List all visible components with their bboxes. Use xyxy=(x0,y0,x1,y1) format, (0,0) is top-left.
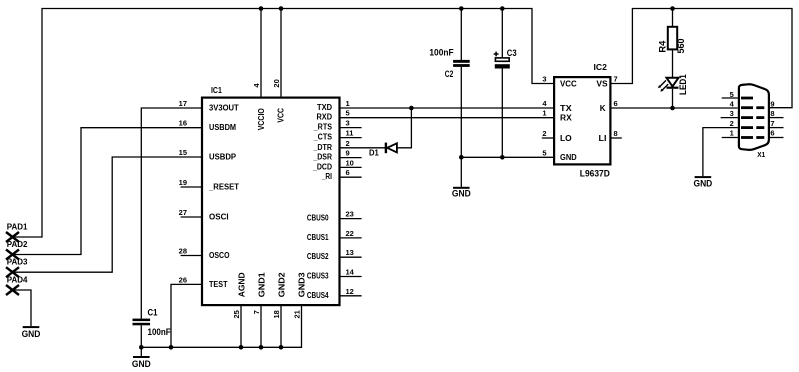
svg-text:16: 16 xyxy=(179,119,187,128)
pin stub IC1 OSCI 27 xyxy=(181,216,202,218)
svg-text:5: 5 xyxy=(542,148,546,157)
pad PAD2 xyxy=(6,240,28,260)
IC1 pin numbers left xyxy=(179,99,187,284)
IC2 L9637D box xyxy=(554,77,610,164)
svg-text:VCC: VCC xyxy=(276,108,285,123)
pad PAD1 xyxy=(6,222,28,242)
svg-text:GND: GND xyxy=(22,329,41,339)
svg-text:14: 14 xyxy=(346,268,355,277)
svg-text:15: 15 xyxy=(179,148,187,157)
pad PAD4 xyxy=(6,275,28,295)
pin GND2 IC1 18 xyxy=(280,305,282,347)
X1 pin bars right column xyxy=(756,106,764,139)
wire C1 bottom leg xyxy=(140,325,142,347)
svg-text:27: 27 xyxy=(179,208,187,217)
wire C3 top leg xyxy=(501,9,503,58)
wire R4 top leg xyxy=(672,9,674,27)
pin stub IC1 CBUS4 12 xyxy=(340,295,362,297)
svg-text:22: 22 xyxy=(346,229,354,238)
svg-text:RX: RX xyxy=(560,113,572,122)
junction rail/C2 xyxy=(459,6,464,11)
svg-text:_RTS: _RTS xyxy=(313,123,333,132)
pin stub IC1 _DSR 9 xyxy=(340,157,362,159)
svg-text:6: 6 xyxy=(614,99,618,108)
svg-text:28: 28 xyxy=(179,247,187,256)
svg-text:_DCD: _DCD xyxy=(312,162,332,171)
svg-text:GND: GND xyxy=(132,359,151,369)
ground symbol below C1 xyxy=(132,356,151,369)
capacitor C1 xyxy=(133,307,171,337)
wire VCCIO pin 4 to rail xyxy=(260,9,262,98)
wire TEST IC1 pin26 to ground rail xyxy=(171,284,202,347)
wire C2 top leg xyxy=(460,9,462,61)
svg-text:12: 12 xyxy=(346,287,354,296)
pad PAD3 xyxy=(6,258,28,278)
wire GND net C2 C3 to IC2 pin5 xyxy=(461,156,554,158)
svg-text:13: 13 xyxy=(346,248,354,257)
diode D1 xyxy=(369,143,397,158)
svg-text:K: K xyxy=(600,104,606,113)
junction GND line/C3 xyxy=(500,155,505,160)
svg-text:100nF: 100nF xyxy=(429,48,453,58)
X1 pin numbers right xyxy=(770,99,774,137)
pin stub IC1 _CTS 11 xyxy=(340,137,362,139)
svg-text:GND: GND xyxy=(452,189,471,199)
svg-text:560: 560 xyxy=(676,38,686,53)
svg-text:20: 20 xyxy=(272,79,281,87)
svg-text:CBUS3: CBUS3 xyxy=(307,272,329,281)
svg-text:3: 3 xyxy=(730,109,734,118)
X1 pin bars left column xyxy=(741,97,753,139)
svg-text:2: 2 xyxy=(542,129,546,138)
svg-text:IC2: IC2 xyxy=(594,63,608,72)
IC2 pin numbers left xyxy=(542,75,547,158)
svg-text:RXD: RXD xyxy=(317,113,333,122)
ground symbol near C2 xyxy=(452,187,471,199)
svg-text:X1: X1 xyxy=(757,150,765,159)
junction GND line/C2 xyxy=(459,155,464,160)
svg-text:25: 25 xyxy=(232,310,241,318)
svg-text:6: 6 xyxy=(346,168,350,177)
svg-text:PAD4: PAD4 xyxy=(7,275,28,284)
svg-text:LED1: LED1 xyxy=(678,74,688,95)
junction TXD/D1 xyxy=(409,106,414,111)
wire IC2 VS to second rail, across and down to X1 pin 9 xyxy=(611,9,793,108)
capacitor C2 xyxy=(429,48,469,80)
svg-text:17: 17 xyxy=(179,99,187,108)
svg-text:8: 8 xyxy=(770,109,774,118)
svg-text:USBDP: USBDP xyxy=(209,152,237,161)
wire C3 bottom leg xyxy=(501,69,503,158)
svg-text:_DTR: _DTR xyxy=(313,143,333,152)
wire GND drop below C2 xyxy=(460,157,462,187)
pin stub X1 pin5 xyxy=(722,97,738,99)
svg-text:L9637D: L9637D xyxy=(580,169,610,179)
svg-text:VS: VS xyxy=(596,79,608,88)
pin stub X1 pin7 xyxy=(769,127,784,129)
svg-text:8: 8 xyxy=(614,129,618,138)
wire C1 to ground symbol xyxy=(140,347,142,356)
svg-text:D1: D1 xyxy=(369,149,379,158)
IC1 FT232 box xyxy=(202,98,340,306)
pin GND3 IC1 21 and ground rail xyxy=(141,305,301,347)
junction rail/VCCIO xyxy=(259,6,264,11)
svg-text:TEST: TEST xyxy=(209,280,228,289)
wire IC1 _DTR to D1 anode xyxy=(340,147,385,149)
svg-text:C3: C3 xyxy=(507,48,517,58)
capacitor C3 polarized xyxy=(494,48,517,68)
svg-text:_RI: _RI xyxy=(321,172,332,181)
pin stub IC1 OSCO 28 xyxy=(181,255,202,257)
LED LED1 xyxy=(658,74,688,95)
pin stub IC2 LO 2 xyxy=(542,137,554,139)
svg-text:3: 3 xyxy=(346,119,350,128)
IC1 pin names right xyxy=(307,103,333,300)
pin stub X1 pin6 xyxy=(769,137,784,139)
svg-text:CBUS4: CBUS4 xyxy=(307,291,329,300)
IC2 pin numbers right xyxy=(614,75,618,139)
svg-text:CBUS0: CBUS0 xyxy=(307,214,329,223)
junction rail/GND2 xyxy=(279,345,284,350)
wire 3V3OUT IC1 pin17 to C1 xyxy=(141,108,202,319)
pin stub X1 pin8 xyxy=(769,117,784,119)
svg-text:GND3: GND3 xyxy=(298,272,307,298)
svg-text:_DSR: _DSR xyxy=(313,153,333,162)
svg-text:6: 6 xyxy=(770,129,774,138)
ground symbol below X1 pin2 xyxy=(694,176,713,189)
svg-text:7: 7 xyxy=(770,119,774,128)
svg-text:PAD1: PAD1 xyxy=(7,222,28,231)
wire LED1 cathode to K line xyxy=(672,89,674,108)
IC2 pin names xyxy=(560,79,577,162)
IC1 pin names left xyxy=(208,103,239,288)
IC1 pin numbers right xyxy=(346,99,355,296)
svg-text:7: 7 xyxy=(614,75,618,84)
svg-text:21: 21 xyxy=(293,310,302,318)
connector X1 DB9 outline xyxy=(739,84,769,150)
wire R4 to LED1 xyxy=(672,49,674,77)
pin stub IC1 CBUS2 13 xyxy=(340,256,362,258)
svg-text:11: 11 xyxy=(346,129,354,138)
wire PAD4 to ground xyxy=(13,290,32,326)
svg-text:2: 2 xyxy=(730,119,734,128)
pin stub IC1 CBUS3 14 xyxy=(340,276,362,278)
resistor R4 xyxy=(658,27,687,54)
pin AGND IC1 25 xyxy=(240,305,242,347)
svg-text:1: 1 xyxy=(346,99,350,108)
svg-text:AGND: AGND xyxy=(237,272,246,297)
wire VCC pin 20 to rail xyxy=(280,9,282,98)
svg-text:IC1: IC1 xyxy=(211,86,222,95)
wire USBDP IC1 pin15 to PAD3 xyxy=(13,157,203,272)
svg-text:7: 7 xyxy=(252,310,261,314)
svg-text:1: 1 xyxy=(542,109,546,118)
svg-text:3: 3 xyxy=(542,75,546,84)
svg-text:VCCIO: VCCIO xyxy=(257,108,266,130)
wire TXD net IC1 pin1 to IC2 pin4 xyxy=(340,107,554,109)
svg-text:CBUS1: CBUS1 xyxy=(307,233,329,242)
svg-text:C1: C1 xyxy=(148,307,158,317)
svg-text:100nF: 100nF xyxy=(148,327,171,337)
junction rail/C3 xyxy=(500,6,505,11)
svg-text:GND2: GND2 xyxy=(277,272,286,298)
pin stub IC1 _RTS 3 xyxy=(340,127,362,129)
pin stub IC1 _DCD 10 xyxy=(340,166,362,168)
junction rail/C1 xyxy=(139,345,144,350)
svg-text:19: 19 xyxy=(179,178,187,187)
svg-text:CBUS2: CBUS2 xyxy=(307,252,329,261)
svg-text:_RESET: _RESET xyxy=(208,182,239,191)
pin GND1 IC1 7 xyxy=(260,305,262,347)
svg-text:OSCO: OSCO xyxy=(209,251,230,260)
pin stub IC2 LI 8 xyxy=(611,137,622,139)
svg-text:26: 26 xyxy=(179,275,187,284)
svg-text:18: 18 xyxy=(272,310,281,318)
junction rail/GND1 xyxy=(259,345,264,350)
wire K net IC2 pin6 to X1 pin4 xyxy=(611,107,738,109)
svg-text:PAD3: PAD3 xyxy=(7,258,28,267)
svg-text:GND1: GND1 xyxy=(257,272,266,298)
junction rail2/R4 xyxy=(670,6,675,11)
wire PAD1 to +5V rail and down to IC2 VCC xyxy=(13,9,555,238)
pin stub IC1 CBUS1 22 xyxy=(340,237,362,239)
svg-text:LI: LI xyxy=(599,134,607,143)
svg-text:C2: C2 xyxy=(445,69,454,79)
svg-text:USBDM: USBDM xyxy=(209,123,236,132)
svg-text:OSCI: OSCI xyxy=(209,212,229,221)
junction rail/VCC xyxy=(279,6,284,11)
svg-text:R4: R4 xyxy=(658,40,668,53)
junction K line/LED xyxy=(670,106,675,111)
pin stub IC1 CBUS0 23 xyxy=(340,218,362,220)
svg-text:TX: TX xyxy=(560,104,572,113)
svg-text:LO: LO xyxy=(560,134,572,143)
svg-text:GND: GND xyxy=(694,179,713,189)
svg-text:_CTS: _CTS xyxy=(313,133,333,142)
wire X1 pin2 to ground xyxy=(703,128,738,177)
wire RXD net IC1 pin5 to IC2 pin1 xyxy=(340,117,554,119)
pin stub IC1 _RESET 19 xyxy=(181,186,202,188)
svg-text:9: 9 xyxy=(770,99,774,108)
svg-text:5: 5 xyxy=(730,90,734,99)
svg-text:3V3OUT: 3V3OUT xyxy=(209,103,239,112)
pin stub X1 pin1 xyxy=(722,137,738,139)
pin stub X1 pin3 xyxy=(721,117,738,119)
svg-text:5: 5 xyxy=(346,109,350,118)
svg-text:TXD: TXD xyxy=(317,103,332,112)
svg-text:23: 23 xyxy=(346,210,354,219)
junction rail/AGND xyxy=(239,345,244,350)
svg-text:PAD2: PAD2 xyxy=(7,240,28,249)
wire C2 bottom leg xyxy=(460,67,462,157)
wire USBDM IC1 pin16 to PAD2 xyxy=(13,128,203,255)
X1 pin numbers left xyxy=(730,90,735,138)
svg-text:GND: GND xyxy=(560,153,577,162)
ground symbol below PAD4 xyxy=(22,326,41,339)
junction rail/TEST xyxy=(169,345,174,350)
pin stub IC1 _RI 6 xyxy=(340,176,362,178)
wire D1 to TXD xyxy=(397,108,412,148)
svg-text:2: 2 xyxy=(346,139,350,148)
svg-text:VCC: VCC xyxy=(560,79,577,88)
svg-text:1: 1 xyxy=(730,129,734,138)
svg-text:10: 10 xyxy=(346,158,354,167)
svg-text:9: 9 xyxy=(346,149,350,158)
